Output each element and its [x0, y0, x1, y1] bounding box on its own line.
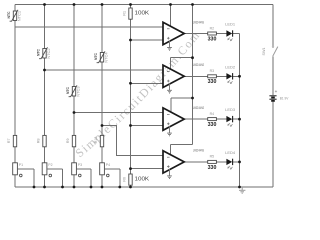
- wire V+ branch to U1c: [171, 97, 193, 99]
- LED4: [225, 151, 235, 169]
- wire R8 to P2: [44, 147, 46, 163]
- svg-text:R2: R2: [210, 26, 215, 30]
- ground (op-amp 3): [167, 126, 172, 136]
- svg-text:100K: 100K: [135, 177, 150, 183]
- wire NTC1 node to U1a inverting input: [15, 26, 163, 28]
- resistor R2 330: [208, 26, 217, 42]
- wire R2 to LED1: [216, 33, 226, 35]
- ground (op-amp 1): [167, 41, 172, 51]
- svg-text:LED4: LED4: [225, 151, 235, 155]
- wire V+ U1d power pin drop: [170, 145, 172, 156]
- junction dots top rail: [43, 3, 46, 6]
- wire R3 to LED2: [216, 75, 226, 77]
- svg-text:+: +: [275, 89, 278, 94]
- wire R4 to LED3: [216, 118, 226, 120]
- wire LED2 cathode to bus: [233, 75, 240, 77]
- wire R6 to rail: [130, 185, 132, 187]
- svg-text:P3: P3: [78, 163, 82, 167]
- ground (op-amp 2): [167, 83, 172, 93]
- wire reference node to U1d non-inverting input: [131, 168, 164, 170]
- wire column NTC2 to R8: [44, 58, 46, 135]
- svg-text:LED3: LED3: [225, 108, 235, 112]
- wire R10 to P4: [101, 147, 103, 163]
- svg-text:R1: R1: [123, 11, 127, 16]
- thermistor NTC2: [36, 47, 51, 59]
- wire reference node to U1a non-inverting input: [131, 39, 164, 41]
- wire U1c output to R4: [184, 118, 208, 120]
- svg-text:NTC2: NTC2: [47, 48, 51, 58]
- wire NTC3 top stub: [73, 5, 75, 87]
- op-amp U1a LM324/4NS: [163, 20, 205, 44]
- wire V+ to U1a power pin: [170, 5, 172, 27]
- wire NTC1 top stub: [14, 5, 16, 12]
- wire NTC4 node to U1d inverting input: [102, 126, 163, 156]
- svg-text:R6: R6: [123, 177, 127, 182]
- svg-text:R7: R7: [7, 138, 11, 143]
- wire NTC3 node to U1c inverting input: [74, 112, 163, 114]
- wire reference column R1 to R6: [130, 19, 132, 174]
- wire SW1 to battery positive: [272, 56, 274, 95]
- svg-text:P1: P1: [19, 163, 23, 167]
- svg-text:330: 330: [208, 122, 217, 128]
- svg-text:P2: P2: [48, 163, 52, 167]
- wire ground bottom rail: [15, 186, 273, 188]
- svg-text:NTC1: NTC1: [17, 11, 21, 21]
- wire V+ U1c power pin drop: [170, 98, 172, 112]
- LED1: [225, 23, 235, 41]
- ground (op-amp 4): [167, 169, 172, 179]
- svg-text:LED2: LED2: [225, 65, 235, 69]
- junction dots input taps: [43, 69, 46, 72]
- junction dots LED bus: [238, 75, 241, 78]
- wire P2 to rail: [44, 175, 46, 187]
- svg-text:NTC: NTC: [94, 53, 98, 60]
- wire LED1 cathode to bus: [233, 33, 240, 35]
- wire R1 top stub: [130, 5, 132, 9]
- svg-text:R10: R10: [94, 137, 98, 144]
- svg-text:LM324/4NS: LM324/4NS: [193, 106, 205, 110]
- wire V+ branch to U1d: [171, 144, 193, 146]
- svg-text:R8: R8: [37, 138, 41, 143]
- svg-text:R5: R5: [210, 155, 215, 159]
- wire NTC2 top stub: [44, 5, 46, 49]
- svg-text:B1 9V: B1 9V: [280, 97, 289, 101]
- wire top rail to SW1: [272, 5, 274, 46]
- svg-text:NTC3: NTC3: [76, 86, 80, 96]
- trimpot P2: [42, 163, 62, 187]
- svg-text:R3: R3: [210, 69, 215, 73]
- wire NTC4 top stub: [101, 5, 103, 53]
- thermistor NTC4: [94, 51, 109, 63]
- svg-text:NTC: NTC: [7, 11, 11, 18]
- ground (battery): [239, 187, 245, 193]
- wire reference node to U1c non-inverting input: [131, 125, 164, 127]
- op-amp U1c LM324/4NS: [163, 106, 205, 130]
- wire R9 to P3: [73, 147, 75, 163]
- trimpot P3: [72, 163, 91, 187]
- wire column NTC3 to R9: [73, 96, 75, 135]
- junction dots bottom rail: [33, 186, 36, 189]
- svg-text:NTC: NTC: [36, 49, 40, 56]
- wire column NTC1 to R7: [14, 21, 16, 136]
- svg-text:LM324/4NS: LM324/4NS: [193, 149, 205, 153]
- wire P4 to rail: [101, 175, 103, 187]
- wire U1b output to R3: [184, 75, 208, 77]
- svg-text:100K: 100K: [135, 11, 150, 17]
- wire R5 to LED4: [216, 161, 226, 163]
- resistor R6: [123, 174, 150, 185]
- wire R7 to P1: [14, 147, 16, 163]
- junction dots V+ chain: [191, 56, 194, 59]
- svg-text:NTC4: NTC4: [104, 52, 108, 62]
- wire LED cathode bus: [239, 34, 241, 188]
- wire battery negative to bottom rail: [272, 102, 274, 188]
- wire V+ distribution drop: [192, 5, 194, 145]
- svg-text:SW1: SW1: [262, 48, 266, 56]
- wire P3 to rail: [73, 175, 75, 187]
- resistor R1: [123, 8, 150, 19]
- wire LED3 cathode to bus: [233, 118, 240, 120]
- svg-text:330: 330: [208, 165, 217, 171]
- resistor R3 330: [208, 69, 217, 85]
- wire U1a output to R2: [184, 33, 208, 35]
- wire V+ U1b power pin drop: [170, 58, 172, 70]
- wire P1 to rail: [14, 175, 16, 187]
- wire V+ branch to U1b: [171, 57, 193, 59]
- svg-text:330: 330: [208, 36, 217, 42]
- resistor R8: [37, 135, 47, 146]
- LED2: [225, 65, 235, 83]
- op-amp U1b LM324/4NS: [163, 63, 205, 87]
- wire V+ top rail: [15, 4, 273, 6]
- svg-text:LM324/4NS: LM324/4NS: [193, 63, 205, 67]
- thermistor NTC3: [66, 85, 81, 97]
- thermistor NTC1: [7, 10, 22, 21]
- svg-text:R9: R9: [66, 138, 70, 143]
- battery B1 9V: [269, 89, 289, 101]
- wire column NTC4 to R10: [101, 62, 103, 135]
- svg-text:P4: P4: [106, 163, 110, 167]
- wire reference node to U1b non-inverting input: [131, 82, 164, 84]
- op-amp U1d LM324/4NS: [163, 149, 205, 173]
- resistor R4 330: [208, 112, 217, 128]
- wire U1d output to R5: [184, 161, 208, 163]
- trimpot P4: [100, 163, 120, 187]
- resistor R5 330: [208, 155, 217, 171]
- svg-text:NTC: NTC: [66, 87, 70, 94]
- wire NTC2 node to U1b inverting input: [45, 69, 164, 71]
- switch SW1: [262, 46, 278, 57]
- resistor R10: [94, 135, 104, 146]
- svg-text:R4: R4: [210, 112, 215, 116]
- svg-text:330: 330: [208, 79, 217, 85]
- LED3: [225, 108, 235, 126]
- wire LED4 cathode to bus: [233, 161, 240, 163]
- trimpot P1: [13, 163, 34, 187]
- svg-text:LM324/4NS: LM324/4NS: [193, 20, 205, 24]
- svg-text:LED1: LED1: [225, 23, 235, 27]
- resistor R9: [66, 135, 76, 146]
- resistor R7: [7, 135, 17, 146]
